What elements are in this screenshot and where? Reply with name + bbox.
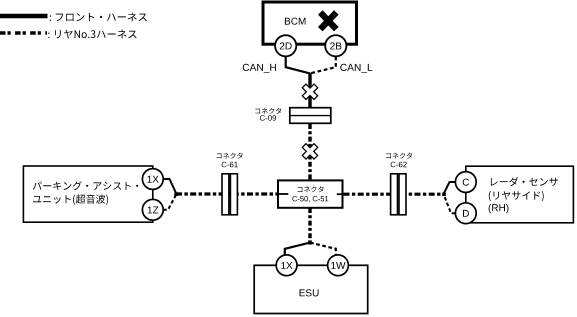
wire: dashed trunk from connector C-09 down to connector C-50 [308,124,311,180]
wire from pin D of radar sensor to right junction (dashed) [444,195,455,213]
connector C-09 body [290,108,331,124]
pin 2D of BCM [275,35,296,56]
pin 1X of parking assist unit [142,169,163,190]
label C-61 [222,162,238,168]
label コネクタ for C-09 [255,108,281,114]
label BCM [285,18,306,25]
label (リヤサイド) [489,191,544,201]
legend: rear No.3 harness label リヤNo.3ハーネス [48,30,136,39]
label C-50, C-51 [292,196,328,202]
label CAN_L [340,64,372,73]
connector C-61 body (two halves) [222,174,237,215]
label ESU [300,289,319,296]
legend: front harness solid line sample [0,14,48,19]
abnormality X mark on trunk between C-09 and C-50 [302,144,317,159]
pin D of radar sensor [455,203,476,224]
label ユニット(超音波) [33,194,108,204]
radar sensor box [466,166,574,223]
legend: front harness label フロント・ハーネス [50,13,147,22]
pin 1Z of parking assist unit [142,199,163,220]
label コネクタ for C-62 [386,153,412,159]
pin 2B of BCM [325,35,346,56]
junction node right [442,193,446,197]
label (RH) [489,204,509,213]
pin 1X of ESU [276,255,297,276]
abnormality X mark on trunk between BCM and C-09 [302,84,317,99]
legend: rear No.3 harness dashed line sample [0,31,47,35]
label コネクタ for C-61 [217,153,243,159]
wire CAN_H from pin 2D to junction (front harness, solid) [286,57,310,74]
label C-62 [391,162,407,168]
label CAN_H [243,64,276,73]
junction node left [174,192,178,196]
fault X mark inside BCM [320,12,336,29]
wire stub inside C-50 box right [337,193,343,195]
wire: dashed left trunk from junction to connector C-50 (through C-61) [176,192,278,195]
pin 1W of ESU [328,255,349,276]
wire from ESU junction to pin 1W (dashed) [310,243,336,256]
label C-09 [260,115,276,121]
wire from ESU junction to pin 1X (solid) [285,243,310,256]
wire from pin C of radar sensor to right junction (solid) [444,182,455,193]
label コネクタ inside C-50 box [298,186,324,192]
wire from pin 1Z of parking unit to left junction (dashed) [163,195,176,210]
wire: solid trunk from CAN junction down to connector C-09 [308,73,311,109]
parking assist unit box [23,166,152,222]
ECU box BCM [263,2,357,44]
wire: dashed trunk from connector C-50 down to ESU junction [308,208,311,243]
label レーダ・センサ [491,177,558,186]
wire CAN_L from pin 2B to junction (rear harness, dashed) [310,57,336,74]
ECU box ESU [254,265,368,313]
wire: dashed right trunk from connector C-50 to junction (through C-62) [344,193,445,196]
wire from pin 1X of parking unit to left junction (solid) [163,179,176,193]
wire stub inside C-50 box left [278,193,288,195]
label パーキング・アシスト・ [33,181,139,190]
connector C-50, C-51 box [278,180,343,207]
junction node above ESU [308,240,311,244]
connector C-62 body (two halves) [391,174,406,215]
pin C of radar sensor [455,172,476,193]
